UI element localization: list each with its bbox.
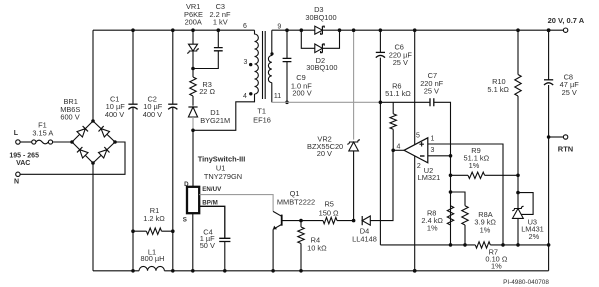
ground bus (380, 244, 548, 246)
transistor Q1 MMBT2222 (281, 215, 283, 226)
svg-text:400 V: 400 V (143, 110, 162, 119)
svg-text:30BQ100: 30BQ100 (306, 63, 337, 72)
resistor R7 0.10 Ohm 1% (475, 242, 490, 248)
svg-text:VAC: VAC (16, 160, 30, 167)
svg-text:2%: 2% (529, 232, 540, 241)
svg-text:S: S (183, 216, 187, 223)
svg-text:1 kV: 1 kV (213, 18, 228, 27)
transformer T1 primary winding (255, 30, 259, 94)
capacitor C7 220 nF 25 V (430, 98, 434, 106)
svg-text:LL4148: LL4148 (352, 234, 377, 243)
node line to C7 (380, 102, 450, 156)
svg-text:LM321: LM321 (418, 173, 441, 182)
bridge rectifier BR1 MB6S 600 V (72, 121, 115, 163)
svg-text:1.2 kΩ: 1.2 kΩ (143, 214, 165, 223)
wire 20V to op-amp V+ pin5 (413, 28, 417, 32)
svg-text:TinySwitch-III: TinySwitch-III (198, 154, 246, 163)
TVS VR1 P6KE200A (192, 30, 194, 44)
svg-text:EN/UV: EN/UV (202, 186, 222, 193)
svg-text:TNY279GN: TNY279GN (204, 172, 242, 181)
wire U1 source to bottom rail (192, 213, 194, 271)
diode D1 BYG21M (188, 107, 197, 117)
svg-text:BP/M: BP/M (202, 199, 217, 206)
terminal RTN (547, 135, 551, 139)
resistor R5 150 Ohm (301, 220, 323, 222)
svg-text:30BQ100: 30BQ100 (305, 13, 336, 22)
top rail secondary (272, 29, 564, 31)
svg-text:11: 11 (274, 93, 281, 100)
IC U1 TNY279GN TinySwitch-III (187, 187, 199, 213)
wire pin11 return (272, 101, 381, 103)
terminal L (16, 140, 20, 144)
diode D3 30BQ100 (300, 28, 304, 32)
resistor R8A 3.9 kOhm 1% (451, 192, 466, 245)
svg-text:R5: R5 (324, 199, 333, 208)
svg-text:150 Ω: 150 Ω (319, 208, 339, 217)
svg-text:9: 9 (277, 23, 281, 30)
wire fuse to bridge (53, 141, 72, 143)
svg-text:1%: 1% (427, 224, 438, 233)
zener VR2 BZX55C20 20 V (353, 30, 355, 139)
inductor L1 800 uH (139, 266, 164, 270)
svg-text:EF16: EF16 (253, 116, 271, 125)
svg-text:200A: 200A (185, 18, 202, 27)
primary tap dots (249, 63, 252, 66)
capacitor C6 220 uF 25 V (379, 28, 383, 32)
diode D2 30BQ100 (301, 30, 339, 48)
svg-text:50 V: 50 V (200, 241, 215, 250)
svg-text:600 V: 600 V (60, 113, 79, 122)
resistor R1 1.2 kOhm (133, 230, 173, 232)
resistor R9 51.1 kOhm 1% (451, 174, 469, 176)
svg-text:20 V, 0.7 A: 20 V, 0.7 A (548, 16, 585, 25)
capacitor C9 1.0 nF 200 V (285, 28, 289, 32)
resistor R6 51.1 kOhm (392, 102, 394, 114)
wire BP/M to C4 (199, 206, 225, 238)
terminal output 20V 0.7A (563, 28, 567, 32)
resistor R10 5.1 kOhm (517, 30, 519, 74)
node pin3 vertical (450, 156, 452, 245)
svg-text:1%: 1% (469, 161, 480, 170)
bottom rail left (93, 270, 139, 272)
svg-text:6: 6 (243, 23, 247, 30)
svg-text:RTN: RTN (558, 144, 573, 153)
svg-text:1%: 1% (491, 262, 502, 271)
svg-text:195 - 265: 195 - 265 (9, 152, 39, 159)
svg-text:1%: 1% (480, 226, 491, 235)
top rail primary (93, 29, 255, 31)
capacitor C8 47 uF 25 V (547, 28, 551, 32)
fuse F1 3.15 A (32, 140, 36, 144)
svg-text:400 V: 400 V (105, 110, 124, 119)
svg-text:5: 5 (416, 132, 420, 139)
svg-text:51.1 kΩ: 51.1 kΩ (385, 89, 411, 98)
svg-text:25 V: 25 V (424, 87, 439, 96)
wire N to bridge right (20, 142, 125, 174)
wire right return (548, 137, 550, 271)
svg-text:PI-4980-040708: PI-4980-040708 (503, 279, 549, 286)
svg-text:3: 3 (244, 59, 248, 66)
junction dot op-amp gnd (413, 269, 417, 273)
svg-text:2: 2 (417, 163, 421, 170)
wire D1 node to U1 drain (192, 130, 194, 187)
svg-text:25 V: 25 V (562, 88, 577, 97)
svg-text:D: D (184, 181, 189, 188)
svg-text:25 V: 25 V (393, 58, 408, 67)
svg-text:4: 4 (243, 93, 247, 100)
svg-text:T1: T1 (257, 107, 266, 116)
svg-text:200 V: 200 V (292, 88, 311, 97)
capacitor C4 1 uF 50 V (219, 238, 230, 241)
resistor R8 2.4 kOhm 1% (447, 206, 453, 225)
terminal N (16, 172, 20, 176)
wire EN/UV to Q1 collector (199, 195, 273, 212)
svg-text:MMBT2222: MMBT2222 (277, 197, 315, 206)
svg-text:3.15 A: 3.15 A (32, 128, 53, 137)
resistor R4 10 kOhm (299, 219, 303, 223)
capacitor C2 10 uF 400 V (172, 30, 174, 271)
wire bridge bottom to bottom rail (92, 163, 94, 271)
svg-text:U1: U1 (216, 164, 225, 173)
transformer T1 core (263, 31, 266, 99)
wire pin4 to drain node (193, 94, 255, 130)
svg-text:22 Ω: 22 Ω (199, 87, 215, 96)
resistor R3 22 Ohm (192, 69, 194, 78)
wire bridge top to rail (92, 30, 94, 121)
transformer T1 secondary winding (268, 30, 271, 82)
capacitor C1 10 uF 400 V (132, 30, 134, 271)
svg-text:BYG21M: BYG21M (200, 116, 230, 125)
shunt regulator U3 LM431 2% (517, 175, 519, 208)
svg-text:3: 3 (430, 147, 434, 154)
capacitor C3 2.2 nF 1 kV (193, 30, 218, 68)
svg-text:800 µH: 800 µH (141, 254, 165, 263)
bottom rail mid (164, 270, 548, 272)
svg-text:5.1 kΩ: 5.1 kΩ (487, 85, 509, 94)
svg-text:L: L (14, 130, 19, 137)
wire L to fuse (20, 141, 32, 143)
diode D4 LL4148 (361, 216, 363, 225)
op-amp U2 LM321 (404, 138, 428, 163)
svg-text:10 kΩ: 10 kΩ (307, 243, 327, 252)
svg-text:1: 1 (430, 136, 434, 143)
svg-text:4: 4 (397, 143, 401, 150)
svg-text:20 V: 20 V (317, 149, 332, 158)
svg-text:N: N (14, 179, 19, 186)
